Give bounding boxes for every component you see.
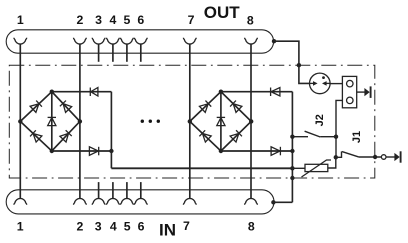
junction dot left bridge right <box>78 119 82 123</box>
wire stub top 3 <box>98 44 100 61</box>
junction dot left bridge top <box>50 90 54 94</box>
junction dot right bridge top <box>219 90 223 94</box>
wire stub top 4 <box>112 44 114 61</box>
suppressor diode D0 left bridge <box>48 117 56 125</box>
junction dot left bridge bottom <box>50 149 54 153</box>
diode left bridge upper-left <box>30 101 42 113</box>
junction dot right bridge left <box>188 119 192 123</box>
top clamp contact 4 <box>107 38 120 44</box>
svg-text:5: 5 <box>124 220 131 234</box>
svg-text:OUT: OUT <box>204 3 241 22</box>
gas discharge tube <box>310 73 331 94</box>
gas dot <box>322 76 325 79</box>
connector pin top <box>347 80 354 87</box>
node Y vertical (right) <box>291 92 293 203</box>
junction dot node Y / bottom diode <box>290 149 294 153</box>
svg-text:6: 6 <box>137 13 144 27</box>
right bridge center line <box>220 92 222 151</box>
ground symbol bottom <box>386 156 395 158</box>
diode right bridge upper-left <box>199 101 211 113</box>
diode left bridge lower-left <box>30 130 42 142</box>
svg-text:3: 3 <box>95 13 102 27</box>
svg-text:7: 7 <box>188 13 195 27</box>
svg-text:8: 8 <box>247 14 254 28</box>
wire GDT to connector <box>330 83 342 85</box>
svg-text:5: 5 <box>123 13 130 27</box>
diode on left bottom wire (cathode right) <box>89 147 98 156</box>
wire line 1 <box>19 44 21 198</box>
top clamp contact 7 <box>183 38 196 44</box>
junction dot J1 left <box>334 155 338 159</box>
junction dot right bridge bottom <box>219 149 223 153</box>
svg-text:8: 8 <box>248 220 255 234</box>
diode left bridge lower-right <box>60 130 72 142</box>
node X vertical (left) <box>110 92 112 169</box>
diode left bridge upper-right <box>60 101 72 113</box>
junction dot on right border <box>373 155 377 159</box>
wire stub top 5 <box>126 44 128 61</box>
svg-text:3: 3 <box>95 220 102 234</box>
top terminal numbers <box>17 3 254 27</box>
OUT rail junction dot <box>272 39 276 43</box>
junction dot J2 right <box>334 135 338 139</box>
junction dot right bridge right <box>249 119 253 123</box>
svg-text:1: 1 <box>17 13 24 27</box>
svg-text:7: 7 <box>183 219 190 233</box>
wire bus to varistor <box>292 167 305 169</box>
top clamp contact 5 <box>121 38 134 44</box>
wire stub bottom 4 <box>112 182 114 198</box>
wire left bridge bottom to node <box>52 150 112 152</box>
protection zone dash-dot border <box>9 65 375 178</box>
IN rail junction dot <box>271 200 275 204</box>
bottom clamp contact 2 <box>74 198 87 204</box>
wire connector to J-bus <box>336 100 342 157</box>
suppressor diode D0 right bridge <box>217 117 225 125</box>
wire line 8 <box>250 44 252 198</box>
left bridge diamond <box>20 92 80 151</box>
wire right bridge top to node <box>221 91 293 93</box>
right bridge diamond <box>190 92 251 151</box>
svg-text:6: 6 <box>138 220 145 234</box>
svg-text:J1: J1 <box>351 131 363 143</box>
bottom clamp contact 3 <box>92 198 105 204</box>
diode on right top wire (cathode left) <box>271 88 280 97</box>
junction dot left bridge left <box>18 119 22 123</box>
wire stub top 6 <box>140 44 142 61</box>
bottom clamp contact 6 <box>134 198 147 204</box>
varistor RV1 <box>302 160 332 177</box>
top clamp contact 8 <box>245 38 258 44</box>
bottom clamp contact 1 <box>14 198 27 204</box>
wire right bridge bottom to node <box>221 150 293 152</box>
IN terminal block stadium <box>6 190 274 214</box>
common bus horizontal <box>111 167 292 169</box>
diode on left top wire (cathode left) <box>90 88 98 97</box>
svg-text:1: 1 <box>17 220 24 234</box>
junction dot J2 left <box>290 135 294 139</box>
connector block <box>342 76 356 107</box>
bottom clamp contact 7 <box>183 198 196 204</box>
top clamp contact 1 <box>14 38 27 44</box>
svg-text:J2: J2 <box>314 114 326 126</box>
junction dot node X <box>109 149 113 153</box>
OUT terminal block stadium <box>6 30 273 53</box>
diode right bridge upper-right <box>230 101 242 113</box>
left bridge center line <box>51 92 53 151</box>
wire stub bottom 6 <box>140 182 142 198</box>
wire OUT rail to GDT <box>274 41 310 83</box>
bottom terminal numbers <box>17 219 255 240</box>
wire line 7 <box>189 44 191 198</box>
ground symbol top <box>357 91 365 93</box>
connector pin bottom <box>347 97 354 104</box>
top clamp contact 3 <box>92 38 105 44</box>
switch J1 <box>336 151 342 157</box>
diode right bridge lower-left <box>199 130 211 142</box>
wire J1 down to varistor <box>328 157 336 168</box>
bottom clamp contact 4 <box>107 198 120 204</box>
top clamp contact 2 <box>74 38 87 44</box>
wire left bridge top to node <box>52 91 112 93</box>
wire stub bottom 3 <box>98 182 100 198</box>
switch J2 <box>292 136 308 138</box>
wire stub bottom 5 <box>126 182 128 198</box>
diode right bridge lower-right <box>230 130 242 142</box>
top clamp contact 6 <box>134 38 147 44</box>
junction dot on top border <box>297 63 301 67</box>
bottom clamp contact 5 <box>121 198 134 204</box>
svg-text:IN: IN <box>159 221 176 240</box>
svg-text:4: 4 <box>109 13 116 27</box>
diode on right bottom wire (cathode right) <box>271 147 280 156</box>
svg-text:2: 2 <box>76 13 83 27</box>
junction dot bus/node Y <box>290 166 294 170</box>
wire line 2 <box>79 44 81 198</box>
wire IN rail up to bus <box>273 201 292 203</box>
junction dot on bottom border <box>290 176 294 180</box>
earth terminal circle <box>381 155 386 160</box>
svg-text:2: 2 <box>76 220 83 234</box>
ellipsis dots <box>141 120 160 123</box>
bottom clamp contact 8 <box>245 198 258 204</box>
svg-text:4: 4 <box>110 220 117 234</box>
